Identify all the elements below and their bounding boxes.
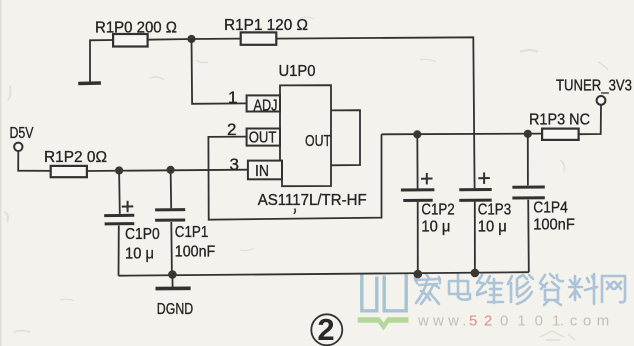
capacitor C1P2 (polarized) (401, 134, 435, 274)
node R1P3-C1P4 junction (524, 130, 532, 138)
figure number circled 2 (311, 312, 342, 346)
wire D5V to R1P2 (18, 151, 51, 171)
value label R1P2 0 Ohm (44, 149, 107, 166)
node C1P1 top junction (167, 166, 175, 174)
refdes C1P2 (421, 202, 454, 219)
U1P0 OUT tab (331, 110, 360, 165)
net label DGND (157, 301, 193, 318)
resistor R1P1 (241, 32, 277, 44)
ground (top-left) (78, 81, 101, 85)
wire junction to R1P1 (192, 38, 241, 40)
resistor R1P0 (113, 34, 148, 47)
pin number 1 (228, 88, 237, 107)
value 100nF (C1P1) (175, 244, 216, 261)
pin number 3 (230, 155, 239, 174)
capacitor C1P0 (polarized) (104, 171, 134, 276)
node C1P0 top junction (115, 166, 123, 174)
wire R1P1 right to vertical drop (276, 37, 474, 188)
watermark logo book (green base) (358, 317, 409, 330)
value label R1P3 NC (529, 111, 590, 128)
resistor R1P3 (542, 129, 579, 140)
terminal D5V (14, 143, 22, 151)
node ADJ junction (187, 35, 195, 43)
pin number 2 (227, 120, 236, 139)
capacitor C1P4 (512, 134, 544, 272)
capacitor C1P1 (155, 170, 185, 275)
pin name ADJ (254, 97, 278, 114)
value 100nF (C1P4) (533, 217, 575, 234)
wire pin 2 OUT loop to output rail (208, 134, 381, 219)
pin box IN (248, 161, 282, 180)
regulator U1P0 body (280, 85, 331, 186)
label OUT (body) (305, 133, 331, 150)
wire R1P3 to TUNER_3V3 terminal (579, 105, 601, 134)
refdes C1P4 (533, 200, 568, 217)
value label R1P1 120 Ohm (224, 17, 308, 34)
value 10u (C1P0) (125, 246, 154, 263)
wire input rail R1P2 to pin 3 IN (87, 170, 248, 171)
value label R1P0 200 Ohm (95, 20, 177, 37)
wire ground stem to top rail (90, 40, 113, 83)
value 10u (C1P3) (478, 219, 507, 236)
node C1P2 bottom junction (414, 270, 423, 279)
refdes C1P3 (478, 202, 511, 219)
watermark logo book (blue pages) (362, 274, 406, 311)
part value AS1117L/TR-HF (258, 192, 367, 209)
wire bottom ground rail (119, 272, 529, 276)
watermark faint mark (540, 331, 575, 340)
value 10u (C1P2) (421, 219, 450, 236)
node C1P3 bottom junction (471, 269, 480, 278)
pin name IN (255, 163, 269, 180)
capacitor C1P3 (polarized) (459, 172, 491, 273)
left edge shadow (0, 0, 2, 346)
refdes C1P1 (175, 224, 209, 241)
refdes C1P0 (125, 226, 160, 243)
net label TUNER_3V3 (556, 78, 632, 95)
node C1P2 top junction (413, 130, 421, 138)
node DGND junction (168, 270, 177, 279)
pin box OUT (247, 129, 280, 146)
resistor R1P2 (51, 166, 87, 177)
stray mark under AS1117 text (294, 209, 295, 215)
pin name OUT (249, 129, 277, 146)
wire junction down to pin 1 (192, 39, 247, 104)
terminal TUNER_3V3 (597, 96, 606, 105)
watermark url www.520101.com (417, 313, 615, 330)
pin box ADJ (247, 95, 280, 111)
net label D5V (10, 125, 34, 142)
ground DGND symbol (156, 275, 191, 289)
wire R1P0 to node ADJ junction (148, 38, 192, 41)
refdes U1P0 (279, 63, 316, 80)
watermark chinese characters (415, 274, 625, 305)
wire output rail (382, 133, 543, 136)
